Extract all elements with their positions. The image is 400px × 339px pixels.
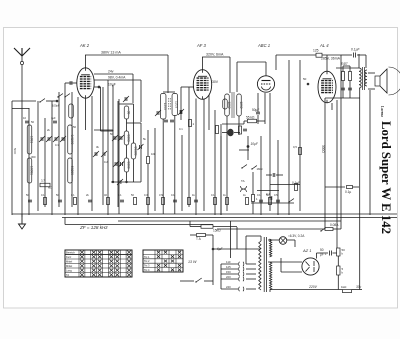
svg-text:150: 150 [226, 270, 231, 274]
svg-text:285V, 36mA: 285V, 36mA [321, 57, 341, 61]
capacitor 10uF det [247, 136, 250, 160]
svg-text:AL 4: AL 4 [319, 43, 329, 48]
wire vert x59 [58, 92, 60, 207]
resistor bottom x148 [147, 198, 150, 205]
wire y109 left [12, 108, 30, 110]
svg-text:125: 125 [313, 49, 319, 53]
svg-text:TA: TA [66, 273, 69, 277]
wire bias top [343, 65, 350, 67]
svg-text:24v: 24v [108, 70, 114, 74]
capacitor osc bottom [112, 181, 114, 183]
resistor bottom x270 [269, 198, 272, 205]
trimmer pair mid [93, 151, 107, 157]
svg-text:1µF: 1µF [51, 116, 56, 120]
svg-text:MΩ: MΩ [48, 186, 52, 190]
svg-text:50: 50 [320, 248, 324, 252]
wire speaker top [369, 90, 371, 215]
resistor bottom x75 [74, 198, 77, 205]
wire vert x155 [154, 128, 156, 211]
label 0.08A [320, 223, 339, 232]
capacitor 10uF [98, 86, 101, 89]
wire AZ1 output [317, 253, 329, 259]
svg-text:30v: 30v [356, 285, 362, 289]
output transformer [359, 67, 367, 90]
svg-text:1202: 1202 [227, 101, 231, 108]
svg-text:≈6.3V, 0.2A: ≈6.3V, 0.2A [288, 234, 305, 238]
wire vert x45 [44, 118, 46, 207]
svg-text:AZ 1: AZ 1 [302, 248, 311, 253]
svg-text:320V, 6mA: 320V, 6mA [206, 53, 224, 57]
wire bus y224 [65, 218, 213, 225]
fuse 0.08A [217, 55, 341, 231]
wire vert x38 [37, 101, 39, 211]
wire bus y221 [118, 220, 341, 222]
resistor bottom x163 [162, 198, 165, 205]
ground [19, 214, 26, 229]
wire vert x118 [117, 101, 119, 207]
resistor 3.7M [40, 179, 52, 190]
resistor 0.3M a [216, 126, 219, 134]
choke 125 [276, 49, 341, 71]
svg-text:Bereich: Bereich [66, 251, 75, 255]
svg-text:50µF: 50µF [252, 108, 259, 112]
svg-text:0.1: 0.1 [71, 193, 75, 197]
svg-text:Kurz: Kurz [66, 255, 72, 259]
svg-text:30V: 30V [212, 80, 219, 84]
wire AL4 cathode row [325, 98, 360, 110]
capacitor coupling [292, 181, 300, 191]
wire grid AL4 [239, 150, 300, 185]
resistor dropper [341, 285, 352, 293]
capacitor bottom x122 [120, 200, 124, 202]
wire transformer bottom [269, 290, 271, 293]
wire vert x113b [112, 130, 114, 182]
resistor bottom x108 [107, 198, 110, 205]
resistor 0.5M [293, 145, 302, 155]
svg-text:0.5: 0.5 [274, 193, 278, 197]
svg-text:0.1: 0.1 [211, 193, 215, 197]
svg-text:0.1µF: 0.1µF [351, 48, 360, 52]
wire vert x270 [269, 93, 271, 211]
svg-text:0.1: 0.1 [55, 143, 59, 147]
resistor bottom x247 [246, 198, 249, 205]
svg-text:1202: 1202 [239, 101, 243, 108]
capacitor 0.1uF af [266, 173, 283, 177]
coil L4 [68, 158, 73, 183]
svg-text:Lord Super W E 142: Lord Super W E 142 [379, 121, 393, 234]
wire IF1 legs [163, 87, 181, 214]
capacitor mains junction [212, 248, 215, 251]
wire selector link [214, 221, 261, 258]
svg-text:10: 10 [23, 116, 26, 120]
svg-text:50: 50 [73, 125, 76, 129]
wire vert x289 [288, 60, 290, 215]
svg-text:3,7: 3,7 [41, 179, 45, 183]
IF transformer 1 [160, 92, 178, 119]
svg-text:240: 240 [226, 285, 231, 289]
svg-text:ZF = 128 kHz: ZF = 128 kHz [79, 225, 108, 230]
volume pot [222, 129, 240, 137]
resistor 0.3M b [239, 126, 248, 134]
switch tone [288, 201, 289, 202]
resistor R osc [147, 157, 150, 164]
capacitor 0.1uF top right [341, 48, 366, 69]
wire vert x103 [102, 87, 104, 205]
resistor AL4 bias 2 [349, 66, 352, 98]
wire y203 [251, 191, 294, 204]
capacitor bias 2 [348, 88, 352, 90]
svg-text:0.1: 0.1 [41, 193, 45, 197]
resistor bottom x135 [134, 198, 137, 205]
resistor smoothing 2 [337, 256, 340, 290]
tube AK2 [77, 55, 94, 98]
svg-text:30: 30 [126, 111, 130, 115]
wire AF3 grid [181, 87, 194, 207]
wire y187 link [325, 186, 359, 189]
switch AF a [241, 167, 242, 168]
coil osc L6 [131, 143, 136, 159]
wire AF3 legs [196, 95, 209, 215]
voltage selector taps [221, 260, 256, 291]
wire OT primary feed [336, 54, 359, 68]
speaker [368, 67, 400, 95]
wire osc horizontals [94, 104, 141, 182]
svg-text:0.1: 0.1 [179, 127, 183, 131]
resistor 55k [244, 119, 265, 123]
tube ABC1 [237, 62, 275, 92]
svg-text:1kΩ: 1kΩ [341, 285, 347, 289]
svg-text:300: 300 [31, 155, 36, 159]
wire AK2 grid left [65, 81, 77, 85]
wire vert x300 [299, 60, 301, 211]
resistor bottom x189 [188, 198, 191, 205]
svg-text:0,5: 0,5 [293, 145, 297, 149]
wire vert x126segs [126, 119, 128, 131]
phono jack TA [241, 179, 247, 192]
wire vert x133 [133, 104, 135, 143]
capacitor bottom x90 [88, 200, 92, 202]
wire vert x72 [71, 92, 73, 207]
IF transformer 2 [225, 92, 243, 118]
wire bus y217 [62, 217, 397, 219]
trimmer row 1 [39, 136, 66, 142]
trimmer osc b [115, 162, 117, 166]
wire vert x52 [51, 101, 53, 215]
svg-text:Lang: Lang [66, 269, 72, 273]
svg-text:1001: 1001 [29, 136, 33, 143]
svg-text:380V 13 mA: 380V 13 mA [101, 51, 121, 55]
tube AL4 [318, 55, 336, 103]
capacitor 0.1uF b [266, 192, 272, 200]
svg-text:1MΩ: 1MΩ [257, 167, 263, 171]
coil L2 [27, 158, 32, 183]
coil osc L5c [124, 158, 129, 172]
trimmer osc top [125, 97, 127, 101]
svg-text:125: 125 [226, 265, 231, 269]
wire vert x215 [214, 110, 216, 215]
svg-text:0.0200: 0.0200 [70, 135, 74, 145]
svg-text:µF +: µF + [320, 253, 327, 257]
svg-text:50200: 50200 [70, 166, 74, 175]
switch AF b [251, 168, 252, 169]
svg-text:Mittel: Mittel [66, 260, 73, 264]
coil L1 [27, 125, 32, 154]
power transformer [246, 236, 272, 292]
wire top-left with switch [12, 99, 57, 103]
svg-text:Tst 1: Tst 1 [144, 255, 150, 259]
capacitor bottom x175 [173, 200, 177, 202]
wire 320V rail [202, 57, 230, 93]
svg-text:0.08A: 0.08A [330, 223, 339, 227]
wire vert x119 [118, 99, 120, 214]
coil osc L5 [124, 106, 129, 119]
wire vert x325 [324, 98, 326, 229]
wire vert x359 B+ [359, 88, 361, 290]
wire vert x108 [107, 80, 109, 215]
resistor bottom x215 [214, 198, 217, 205]
resistor 1M [252, 172, 259, 214]
svg-text:0.3: 0.3 [144, 193, 148, 197]
svg-text:TA: TA [241, 179, 245, 183]
wire vert x278 [277, 140, 279, 215]
svg-text:110: 110 [226, 260, 231, 264]
capacitor bias 1 [341, 88, 345, 90]
table band switch right [143, 250, 183, 272]
wire vert x29 [28, 108, 30, 215]
svg-text:Tst 2: Tst 2 [144, 259, 150, 263]
svg-text:98V, 0.4mA: 98V, 0.4mA [108, 76, 126, 80]
capacitor C row1 [23, 116, 57, 123]
capacitor 50pF diode [256, 93, 260, 124]
wire vert x261 [260, 136, 262, 215]
tube AF3 [193, 57, 211, 99]
svg-text:220: 220 [226, 275, 231, 279]
svg-text:0300: 0300 [126, 161, 130, 168]
capacitor bottom x30 [28, 200, 32, 202]
svg-text:Lorenz: Lorenz [380, 106, 384, 117]
mains switch [180, 278, 213, 283]
wire B minus [270, 289, 362, 291]
table band switch left [65, 250, 132, 277]
svg-text:00380: 00380 [133, 147, 137, 156]
wire vert x148 [147, 130, 149, 215]
wire IF2 legs [221, 116, 239, 215]
resistor 15k mains [190, 221, 237, 228]
wire left column [11, 101, 13, 215]
wire vert x65 [64, 83, 66, 215]
resistor bottom x227 [226, 198, 229, 205]
fuse mains [190, 234, 213, 237]
rectifier AZ1 [268, 258, 319, 275]
capacitor bottom x261 [259, 200, 263, 202]
trimmer osc c [140, 145, 142, 149]
svg-text:1203: 1203 [175, 101, 179, 108]
wire bus y214 [12, 213, 397, 215]
svg-text:AK 2: AK 2 [79, 43, 90, 48]
coil L3 [68, 125, 73, 154]
capacitor 50uF [330, 251, 332, 256]
wire vert x141 [140, 123, 142, 182]
wire AK2 screen taps [94, 74, 141, 122]
svg-text:ABC 1: ABC 1 [257, 43, 270, 48]
svg-text:300Ω: 300Ω [321, 145, 325, 153]
svg-text:1203: 1203 [163, 103, 167, 110]
wire mains vert [212, 235, 214, 285]
svg-text:50: 50 [303, 77, 307, 81]
svg-text:E/87: E/87 [341, 62, 348, 66]
coil ant small [69, 104, 74, 118]
svg-text:0303: 0303 [126, 134, 130, 141]
resistor AF3 leak [189, 99, 228, 127]
resistor smoothing 1 [333, 248, 341, 256]
wire 380V rail [85, 55, 168, 93]
svg-text:5000: 5000 [13, 148, 17, 155]
capacitor antenna [56, 100, 59, 103]
wire antenna down to ground [21, 101, 23, 217]
svg-text:Tst 4: Tst 4 [144, 268, 150, 272]
resistor bottom x45 [44, 198, 47, 205]
resistor AL4 bias 1 [342, 66, 345, 98]
capacitor bottom x196 [194, 200, 198, 202]
svg-text:10µF: 10µF [251, 142, 259, 146]
wire AK2 legs [78, 96, 92, 215]
svg-text:10µF: 10µF [108, 83, 116, 87]
antenna [14, 48, 30, 101]
trimmer IF1 [155, 109, 184, 122]
svg-text:0.1µ: 0.1µ [345, 190, 351, 194]
svg-text:13 W: 13 W [188, 260, 197, 264]
wire vert x221 [220, 136, 222, 215]
capacitor bottom x278 [276, 200, 280, 202]
capacitor AL4 grid [307, 83, 310, 86]
trimmer osc a [114, 136, 116, 140]
svg-text:Tst 3: Tst 3 [144, 264, 150, 268]
wire y124 [222, 93, 265, 124]
svg-text:220V: 220V [308, 285, 318, 289]
svg-text:100pF: 100pF [52, 104, 60, 108]
svg-text:0.1: 0.1 [257, 193, 261, 197]
svg-text:50: 50 [31, 120, 34, 124]
coil osc L5b [124, 131, 129, 145]
wire routing box left [101, 85, 114, 131]
wire vert x337 [336, 100, 338, 248]
svg-text:55 kΩ: 55 kΩ [246, 116, 255, 120]
svg-text:10301: 10301 [29, 166, 33, 175]
switch band left [57, 94, 70, 98]
pilot lamp [268, 237, 295, 247]
svg-text:Mittel: Mittel [66, 264, 73, 268]
wire vert x182 [181, 135, 183, 211]
svg-text:AF 3: AF 3 [196, 43, 206, 48]
capacitor bottom x60 [58, 200, 62, 202]
